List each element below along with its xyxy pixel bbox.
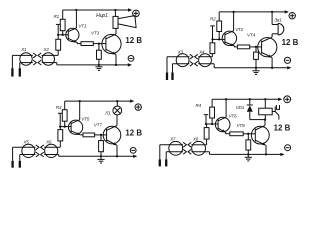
contacts X7-X8 top xyxy=(183,142,191,147)
svg-text:12 В: 12 В xyxy=(125,129,142,138)
node base of VT5 xyxy=(59,125,71,127)
terminal - (circuit 4) xyxy=(285,145,291,151)
wire VT1 emitter to R5 xyxy=(77,42,81,45)
label R2 xyxy=(210,16,216,21)
arrowhead on - rail (circuit 1) xyxy=(128,63,132,66)
wire top supply rail (circuit 2) xyxy=(219,11,287,13)
resistor R3 (trimmer) xyxy=(62,110,67,122)
wire X4 to R4 input xyxy=(211,54,213,57)
svg-text:12 В: 12 В xyxy=(274,124,291,133)
label VT7 xyxy=(94,123,103,128)
contacts X3-X4 bottom xyxy=(190,61,198,66)
arrowhead on + rail (circuit 4) xyxy=(278,98,282,101)
ground (circuit 3) xyxy=(97,156,104,163)
wire VT8 emitter to rail xyxy=(265,145,267,154)
svg-text:R4: R4 xyxy=(196,103,202,108)
svg-text:12 В: 12 В xyxy=(125,36,142,45)
wire R1 bottom to base node xyxy=(62,31,64,35)
arrowhead on + rail (circuit 3) xyxy=(130,99,134,102)
connector X3 xyxy=(176,49,189,66)
terminal - (circuit 1) xyxy=(128,56,134,62)
wire rail to R4 xyxy=(211,99,213,107)
wire X7-X8 bottom pin xyxy=(166,151,209,153)
terminal + (circuit 3) xyxy=(135,104,141,110)
lamp Л1 xyxy=(113,100,122,115)
wire X7-X8 top pin xyxy=(160,144,207,146)
horn Нир1 (loudspeaker) xyxy=(113,9,136,29)
wire VT2 collector to rail xyxy=(232,11,234,31)
wire VT6 emitter to R6 xyxy=(226,132,230,133)
svg-text:X2: X2 xyxy=(43,47,50,52)
wire X6 to R5 input xyxy=(59,141,61,147)
svg-text:R1: R1 xyxy=(54,14,60,19)
label 12 V (circuit 4) xyxy=(274,124,291,133)
arrowhead on - rail (circuit 3) xyxy=(133,155,137,158)
bell Зв1 xyxy=(272,23,284,35)
wire bottom rail (circuit 3) xyxy=(59,155,136,157)
transistor VT5 xyxy=(69,120,83,135)
resistor R8 (VT4 base pulldown) xyxy=(254,47,259,68)
terminal - (circuit 3) xyxy=(130,148,136,154)
wire X8 bottom to rail xyxy=(209,152,211,155)
label 12 V (circuit 2) xyxy=(282,38,299,47)
resistor R6 (VT2 emitter to VT4 base) xyxy=(237,45,249,49)
wire R7 to VT7 base xyxy=(95,134,107,136)
resistor R2 (trimmer) xyxy=(217,21,222,32)
resistor R5 (VT1 emitter to VT3 base) xyxy=(81,42,93,46)
label VT2 xyxy=(235,27,244,32)
label Зв1 xyxy=(274,17,282,22)
connector X1 xyxy=(20,47,32,65)
wire rail to R3 xyxy=(64,101,66,110)
wire VT5 emitter to R7 xyxy=(81,134,83,136)
wire X1-X2 top pin xyxy=(12,54,58,56)
wire X2 bottom to rail xyxy=(56,63,58,65)
svg-text:Зв1: Зв1 xyxy=(274,17,282,22)
node base of VT2 xyxy=(211,38,225,40)
resistor R4 (input series, circuit 2) xyxy=(210,43,215,54)
wire R4 to base node xyxy=(211,39,213,42)
wire X6 bottom to rail xyxy=(58,155,60,157)
transistor VT3 xyxy=(102,34,121,55)
wire R5 to base node xyxy=(206,124,208,128)
resistor R8 (VT8 base pulldown) xyxy=(246,134,251,155)
wire X5-X6 top pin xyxy=(13,146,61,148)
resistor R1 (trimmer) xyxy=(60,19,65,30)
trimmer tap of R3 xyxy=(58,113,63,126)
wire VT7 emitter to rail xyxy=(116,145,118,156)
wire R3 bottom to base node xyxy=(64,121,66,126)
label VT4 xyxy=(247,33,256,38)
svg-text:X8: X8 xyxy=(192,137,199,142)
svg-text:X4: X4 xyxy=(198,49,205,54)
arrowhead on - rail (circuit 2) xyxy=(287,66,291,69)
transistor VT4 xyxy=(258,37,277,58)
connector X4 xyxy=(198,49,211,66)
relay contact K1.1 xyxy=(272,105,279,120)
wire VT8 collector to relay node xyxy=(264,118,266,125)
diode VD1 xyxy=(247,98,253,119)
resistor R6 (VT6 emitter to VT8 base) xyxy=(230,132,243,136)
svg-text:VT3: VT3 xyxy=(91,30,100,35)
contacts X5-X6 bottom xyxy=(36,152,44,157)
svg-text:R3: R3 xyxy=(56,105,62,110)
terminal + (circuit 2) xyxy=(289,13,295,19)
wire R6 to VT8 base xyxy=(243,133,255,135)
terminal + (circuit 1) xyxy=(133,10,140,17)
contacts X1-X2 top xyxy=(33,53,41,58)
wire VT3 emitter to rail xyxy=(115,55,117,65)
wire input terminal 2 (circuit 1) xyxy=(19,63,21,77)
wire top supply rail (circuit 3) xyxy=(65,100,133,102)
terminal + (circuit 4) xyxy=(284,96,291,103)
wire X2 to R3 input xyxy=(57,50,59,55)
connector X6 xyxy=(45,140,58,158)
transistor VT6 xyxy=(215,117,230,132)
label Нир1 xyxy=(96,13,108,19)
wire VT5 collector to rail xyxy=(79,100,81,120)
wire input terminal 1 (circuit 4) xyxy=(159,145,161,167)
wire bottom rail (circuit 1) xyxy=(57,64,131,66)
wire input terminal 1 (circuit 3) xyxy=(12,147,14,167)
wire VT1 collector to rail xyxy=(75,9,77,28)
trimmer tap of R4 xyxy=(204,115,209,124)
wire VT6 collector to rail xyxy=(225,98,227,117)
wire input terminal 2 (circuit 4) xyxy=(165,152,167,167)
ground (circuit 1) xyxy=(95,65,102,71)
svg-text:Л1: Л1 xyxy=(104,111,111,116)
resistor R4 (trimmer) xyxy=(210,107,215,118)
svg-text:X3: X3 xyxy=(177,49,184,54)
resistor R3 (input series, circuit 1) xyxy=(56,39,61,50)
resistor R9 (VT7 base pulldown) xyxy=(99,135,104,156)
svg-text:VT2: VT2 xyxy=(235,27,244,32)
resistor R5 (input series, circuit 4) xyxy=(204,128,209,140)
wire X3-X4 bottom pin xyxy=(173,63,215,65)
wire VT2 emitter to R6 xyxy=(235,45,238,48)
svg-text:VT5: VT5 xyxy=(81,116,90,121)
svg-text:X6: X6 xyxy=(45,140,52,145)
wire diode to coil bottom xyxy=(250,119,265,121)
transistor VT7 xyxy=(103,126,121,146)
connector X7 xyxy=(169,137,183,156)
contacts X1-X2 bottom xyxy=(33,60,41,65)
wire rail to R2 xyxy=(218,12,220,21)
connector X2 xyxy=(42,47,54,65)
svg-text:VT8: VT8 xyxy=(237,123,246,128)
wire X8 to R5 input xyxy=(206,139,208,145)
connector X5 xyxy=(22,140,35,158)
node base of VT1 xyxy=(57,34,68,36)
label VT5 xyxy=(81,116,90,121)
wire R4 bottom to base node xyxy=(211,118,213,124)
wire R6 to VT4 base xyxy=(250,46,262,48)
wire VT4 emitter to rail xyxy=(271,58,273,68)
label R1 xyxy=(54,14,60,19)
label 12 V (circuit 3) xyxy=(125,129,142,138)
connector X8 xyxy=(192,137,206,156)
transistor VT8 xyxy=(251,125,269,145)
wire VT4 collector to bell xyxy=(271,34,273,37)
arrowhead on - rail (circuit 4) xyxy=(280,153,284,156)
resistor R7 (VT5 emitter to VT7 base) xyxy=(83,133,95,137)
svg-text:VT4: VT4 xyxy=(247,33,256,38)
wire input terminal 1 (circuit 1) xyxy=(11,55,13,76)
wire X1-X2 bottom pin xyxy=(20,62,57,64)
wire bottom rail (circuit 2) xyxy=(214,67,290,69)
wire bell to rail xyxy=(271,11,273,25)
arrowhead on + rail (circuit 1) xyxy=(128,8,132,11)
wire rail to R1 xyxy=(62,10,64,19)
wire top supply rail (circuit 1) xyxy=(63,9,131,11)
terminal - (circuit 2) xyxy=(284,57,290,63)
wire X4 bottom to rail xyxy=(213,64,215,68)
wire VT7 collector to lamp xyxy=(116,115,118,126)
svg-text:Нир1: Нир1 xyxy=(96,13,108,19)
label R3 xyxy=(56,105,62,110)
ground (circuit 2) xyxy=(252,68,259,75)
wire R3 to base node xyxy=(57,35,59,40)
relay coil K1 xyxy=(259,98,273,119)
wire input terminal 1 (circuit 2) xyxy=(166,57,168,80)
contacts X7-X8 bottom xyxy=(183,149,191,154)
wire R5 to base node xyxy=(59,127,61,130)
label 12 V (circuit 1) xyxy=(125,36,142,45)
svg-text:X1: X1 xyxy=(20,47,27,52)
transistor VT2 xyxy=(222,31,236,46)
wire R5 to VT3 base xyxy=(93,42,106,44)
svg-text:12 В: 12 В xyxy=(282,38,299,47)
svg-text:VT6: VT6 xyxy=(229,114,238,119)
ground (circuit 4) xyxy=(245,154,252,161)
label VT6 xyxy=(229,114,238,119)
node base of VT6 xyxy=(205,123,218,125)
label VT8 xyxy=(237,123,246,128)
resistor R5 (input series, circuit 3) xyxy=(58,130,63,141)
contacts X3-X4 top xyxy=(190,54,198,59)
wire X5-X6 bottom pin xyxy=(20,154,59,156)
wire VT3 collector to horn xyxy=(115,28,117,34)
transistor VT1 xyxy=(66,28,79,43)
label VT1 xyxy=(78,23,87,28)
svg-text:X5: X5 xyxy=(23,140,30,145)
resistor R7 (VT3 base pulldown) xyxy=(97,44,102,65)
svg-text:VD1: VD1 xyxy=(236,105,245,110)
label Л1 xyxy=(104,111,111,116)
wire input terminal 2 (circuit 2) xyxy=(172,64,174,80)
wire R2 bottom to base node xyxy=(218,32,220,40)
trimmer tap of R2 xyxy=(210,26,215,40)
svg-text:VT1: VT1 xyxy=(78,23,87,28)
wire input terminal 2 (circuit 3) xyxy=(19,155,21,168)
label R4 xyxy=(196,103,202,108)
svg-text:X7: X7 xyxy=(169,137,176,142)
wire X3-X4 top pin xyxy=(167,56,212,58)
label VD1 xyxy=(236,105,245,110)
trimmer tap of R1 xyxy=(56,24,61,34)
svg-text:VT7: VT7 xyxy=(94,123,103,128)
label VT3 xyxy=(91,30,100,35)
wire top supply rail (circuit 4) xyxy=(212,98,281,100)
svg-text:R2: R2 xyxy=(210,16,216,21)
wire bottom rail (circuit 4) xyxy=(210,153,284,155)
contacts X5-X6 top xyxy=(36,145,44,150)
arrowhead on + rail (circuit 2) xyxy=(285,10,289,13)
